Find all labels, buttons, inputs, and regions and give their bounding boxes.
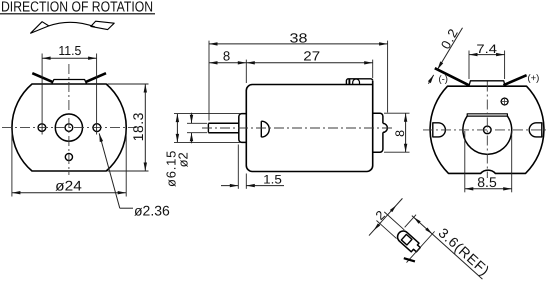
svg-text:7.4: 7.4 — [476, 42, 497, 56]
dim 18.3: dimension line — [144, 84, 146, 171]
front view: bottom hole — [65, 153, 72, 160]
rear view: raised brush tab on top — [469, 81, 505, 86]
dim 27: extension line at body rear — [372, 60, 374, 78]
terminal detail dim 3.6: dimension line — [412, 216, 483, 280]
svg-text:(+): (+) — [527, 73, 539, 84]
side view: internal boss half-circle — [261, 121, 269, 137]
rotation arrow open tail parallelogram — [91, 21, 114, 29]
rear view: shaft center circle — [484, 126, 492, 134]
dim 38: right extension line (rear bump) — [387, 41, 389, 113]
front view: horizontal centerline — [2, 127, 136, 129]
dim 8 rear: bottom extension line — [384, 151, 410, 153]
dim 8 rear: top extension line — [384, 112, 410, 114]
dim 6.15: top extension line — [174, 113, 240, 115]
dim 8.5: dimension line — [465, 188, 512, 190]
dim 11.5: dimension line — [42, 57, 97, 59]
terminal detail: outer terminal outline — [395, 229, 422, 255]
dim 38: left extension line (shaft tip) — [208, 41, 210, 121]
rear view: vertical centerline — [486, 82, 488, 179]
rear view: vent hole cross horizontal — [500, 101, 509, 103]
dim 2: top extension line (shaft) — [187, 122, 207, 124]
rear view: rear hub flat strip — [467, 114, 507, 116]
dim 0.2: lower dimension line — [428, 75, 433, 84]
side view: front bearing bushing — [239, 114, 247, 143]
svg-text:27: 27 — [303, 48, 320, 63]
dim 2: bottom extension line (shaft) — [187, 132, 207, 134]
dim 1.5: right arrow tail — [246, 185, 284, 187]
front view: right terminal (thick stroke) — [86, 73, 106, 82]
dim 1.5: left arrow tail — [221, 185, 238, 187]
side view: shaft end cap — [207, 123, 209, 132]
svg-text:11.5: 11.5 — [58, 43, 81, 58]
side view: rear bearing bump — [383, 123, 387, 132]
rear view: vent hole cross vertical — [504, 97, 506, 106]
dim 11.5: left extension line — [41, 54, 43, 135]
dim 7.4: left extension line — [468, 51, 470, 80]
svg-text:1.5: 1.5 — [263, 172, 282, 186]
svg-text:8: 8 — [223, 48, 230, 63]
rear view: vent hole circle — [501, 98, 508, 105]
rear view: right terminal (thick stroke) — [503, 75, 526, 85]
front view: left terminal (thick stroke) — [32, 73, 52, 82]
dim 8/27: extension line at body face — [245, 60, 247, 83]
terminal detail dim 3.6: extension lines — [405, 215, 416, 228]
title underline — [0, 13, 155, 15]
svg-text:ø24: ø24 — [55, 177, 82, 193]
terminal detail: inner hole rectangle — [401, 234, 412, 245]
side view: shaft bottom line — [208, 132, 238, 134]
side view: top-right terminal tab — [346, 79, 372, 85]
dim 2: upper arrow line — [191, 113, 193, 124]
dim 11.5: right extension line — [96, 54, 98, 135]
dim 0.2: upper dimension line — [437, 28, 462, 70]
svg-text:DIRECTION OF ROTATION: DIRECTION OF ROTATION — [1, 0, 153, 16]
side view: shaft top line — [208, 122, 238, 124]
rear view: motor can outline with flats and bottom notch — [430, 86, 544, 173]
svg-text:ø2: ø2 — [176, 152, 191, 167]
dim 2: lower arrow line — [191, 133, 193, 144]
front view: vertical centerline — [68, 64, 70, 175]
svg-text:ø2.36: ø2.36 — [134, 203, 170, 219]
dim 1.5: right extension line — [245, 174, 247, 189]
front view: raised brush tab on top — [52, 80, 87, 85]
svg-text:38: 38 — [290, 31, 308, 46]
dim 7.4: right extension line — [504, 51, 506, 80]
front view: shaft hole circle — [65, 124, 73, 132]
front view: right mounting hole (2.36 dia) — [93, 124, 101, 132]
dim 7.4: dimension line — [469, 54, 505, 56]
front view: left mounting hole — [38, 124, 46, 132]
rear view: left terminal (thick stroke) — [435, 68, 470, 85]
front view: motor can outline (circle with top/bottom flats) — [12, 84, 126, 171]
terminal detail: oblique tick — [404, 254, 415, 265]
dim 6.15: dimension line — [176, 114, 178, 143]
dim 8 rear: dimension line — [405, 113, 407, 152]
svg-text:18.3: 18.3 — [130, 112, 146, 141]
rear view: horizontal centerline — [423, 129, 546, 131]
dim 6.15: bottom extension line — [174, 141, 240, 143]
dim 38: dimension line — [209, 43, 388, 45]
side view: motor body outline — [246, 81, 372, 172]
dim 1.5: left extension line — [237, 145, 239, 189]
rear view: right side slot — [529, 123, 542, 137]
dim 8.5: right extension line — [511, 131, 513, 192]
leader 2.36: leader line to right mounting hole — [99, 133, 120, 208]
svg-text:(-): (-) — [438, 74, 448, 85]
side view: rear end bell — [373, 113, 383, 152]
rear view: rear hub D-shape circle — [463, 116, 512, 154]
dim 8 and 27: dimension line — [209, 62, 373, 64]
terminal detail dim 2: extension lines — [384, 212, 404, 230]
terminal detail dim 2: dimension line — [369, 198, 402, 235]
dim 18.3: top extension line — [108, 83, 149, 85]
side view: tab detail - terminal edge — [348, 79, 350, 85]
dim 8.5: left extension line — [464, 131, 466, 192]
dim 24: dimension line — [12, 192, 126, 194]
side view: tab detail - terminal hole arc — [353, 79, 360, 85]
dim 24: left extension line — [11, 130, 13, 197]
svg-text:8: 8 — [393, 130, 407, 137]
dim 18.3: bottom extension line — [108, 170, 149, 172]
svg-text:8.5: 8.5 — [477, 174, 497, 190]
rotation direction curved arrow — [49, 22, 95, 27]
front view: bearing boss outer circle — [55, 114, 82, 141]
side view: horizontal centerline — [202, 127, 394, 129]
dim 24: right extension line — [125, 130, 127, 197]
rear view: left side slot — [433, 123, 446, 137]
rotation arrow open head — [31, 22, 49, 34]
